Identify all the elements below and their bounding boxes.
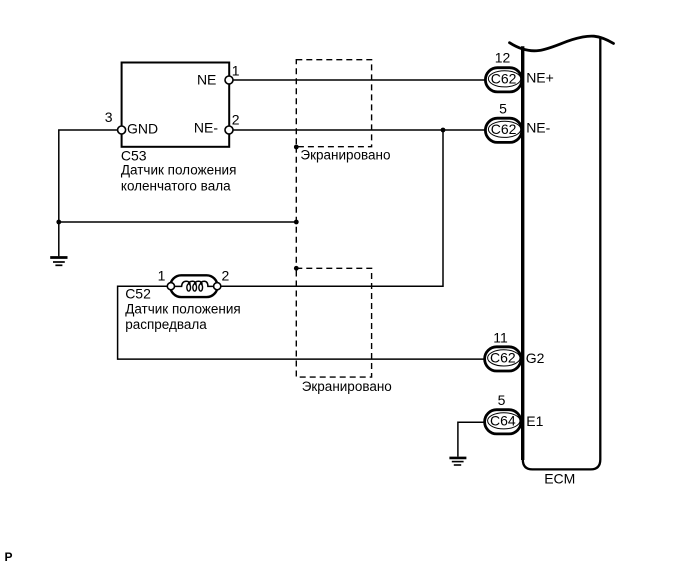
svg-text:G2: G2 — [526, 350, 545, 366]
pin number 5 of C64 — [498, 392, 506, 408]
label Экранировано (top shield) — [300, 147, 390, 162]
net label NE+ — [526, 70, 554, 86]
shield box (dashed) around G2 wire — [296, 268, 371, 377]
svg-text:C52: C52 — [125, 285, 151, 301]
wire from C64 (E1) to ground — [458, 422, 485, 456]
connector C64 pin 5 (E1) — [485, 410, 521, 434]
svg-text:распредвала: распредвала — [125, 317, 207, 332]
svg-text:Экранировано: Экранировано — [300, 147, 390, 162]
pin 2 of C53 — [225, 126, 233, 134]
svg-text:2: 2 — [222, 267, 230, 283]
svg-text:1: 1 — [158, 267, 166, 283]
pin number 11 — [493, 329, 508, 345]
connector C62 pin 12 (NE+) — [485, 68, 521, 92]
ground symbol below C53 ground node — [50, 258, 67, 266]
svg-text:Датчик положения: Датчик положения — [121, 163, 237, 178]
svg-text:ECM: ECM — [544, 471, 575, 487]
pin 2 of C52 — [214, 283, 221, 290]
wire NE+ from C53 pin 1 to ECM connector C62 pin 12 — [233, 79, 486, 81]
net label E1 — [526, 413, 543, 429]
svg-text:12: 12 — [495, 49, 511, 65]
label ECM — [544, 471, 575, 487]
description label: crankshaft position sensor — [121, 163, 237, 194]
sensor C52 body (camshaft position sensor pickup coil outline) — [170, 275, 217, 297]
reference label C52 — [125, 285, 151, 301]
shield box (dashed) around NE wires — [296, 60, 371, 147]
description label: camshaft position sensor — [125, 301, 241, 331]
svg-text:NE-: NE- — [526, 120, 550, 136]
pin name GND — [127, 121, 158, 137]
svg-text:NE: NE — [197, 71, 216, 87]
junction dot where C52 pin 2 wire meets NE- wire — [441, 128, 446, 133]
svg-text:C53: C53 — [121, 147, 147, 163]
svg-text:NE+: NE+ — [526, 70, 554, 86]
junction dot at bottom shield box top corner — [294, 266, 299, 271]
svg-text:NE-: NE- — [194, 120, 218, 136]
ground symbol for E1 — [449, 458, 466, 465]
wire NE- from C53 pin 2 to ECM connector C62 pin 5 — [233, 129, 486, 131]
connector C62 pin 5 (NE-) — [485, 118, 521, 142]
net label G2 — [526, 350, 545, 366]
sensor C53 body (crankshaft position sensor box) — [122, 63, 230, 147]
wire from C52 pin 1 to ECM connector C62 pin 11 (G2) — [118, 286, 485, 359]
junction dot at top shield box bottom corner — [294, 145, 299, 150]
svg-text:коленчатого вала: коленчатого вала — [121, 179, 231, 194]
pin 1 of C53 — [225, 76, 233, 84]
reference label C53 — [121, 147, 147, 163]
svg-text:2: 2 — [232, 111, 240, 127]
svg-text:11: 11 — [493, 329, 508, 345]
svg-text:C62: C62 — [491, 121, 517, 137]
pin name NE — [197, 71, 216, 87]
svg-text:1: 1 — [232, 63, 240, 79]
svg-text:Экранировано: Экранировано — [302, 379, 392, 394]
svg-text:3: 3 — [105, 109, 113, 125]
ECM body outline (bottom and right with rounded corners) — [523, 36, 601, 469]
page marker P — [5, 550, 13, 564]
junction dot at ground node — [56, 220, 61, 225]
net label NE- — [526, 120, 550, 136]
svg-text:E1: E1 — [526, 413, 543, 429]
ECM body left connector bar — [521, 46, 524, 460]
svg-text:Датчик положения: Датчик положения — [125, 301, 241, 316]
pin number 5 — [499, 100, 507, 116]
pin number 1 of C52 — [158, 267, 166, 283]
junction dot where ground wire meets shield dashed line — [294, 220, 299, 225]
svg-text:5: 5 — [499, 100, 507, 116]
svg-text:GND: GND — [127, 121, 158, 137]
svg-text:5: 5 — [498, 392, 506, 408]
pin number 1 of C53 — [232, 63, 240, 79]
wire from C53 pin 3 (GND) down to ground — [59, 130, 118, 256]
pin number 2 of C53 — [232, 111, 240, 127]
svg-text:C64: C64 — [490, 413, 516, 429]
wire from ground node to shield drain — [59, 221, 296, 223]
svg-text:C62: C62 — [490, 350, 516, 366]
pin 3 of C53 — [118, 126, 126, 134]
pin name NE- — [194, 120, 218, 136]
pin number 2 of C52 — [222, 267, 230, 283]
svg-text:P: P — [5, 550, 13, 564]
pin number 12 — [495, 49, 511, 65]
pin 1 of C52 — [167, 283, 174, 290]
wire from C52 pin 2 to NE- net — [221, 130, 443, 286]
ECM torn-edge wavy top — [510, 36, 614, 51]
label Экранировано (bottom shield) — [302, 379, 392, 394]
svg-text:C62: C62 — [491, 71, 517, 87]
inductor coil inside C52 — [175, 281, 213, 291]
shield drain dashed wire — [295, 147, 297, 269]
connector C62 pin 11 (G2) — [485, 347, 521, 371]
pin number 3 of C53 — [105, 109, 113, 125]
